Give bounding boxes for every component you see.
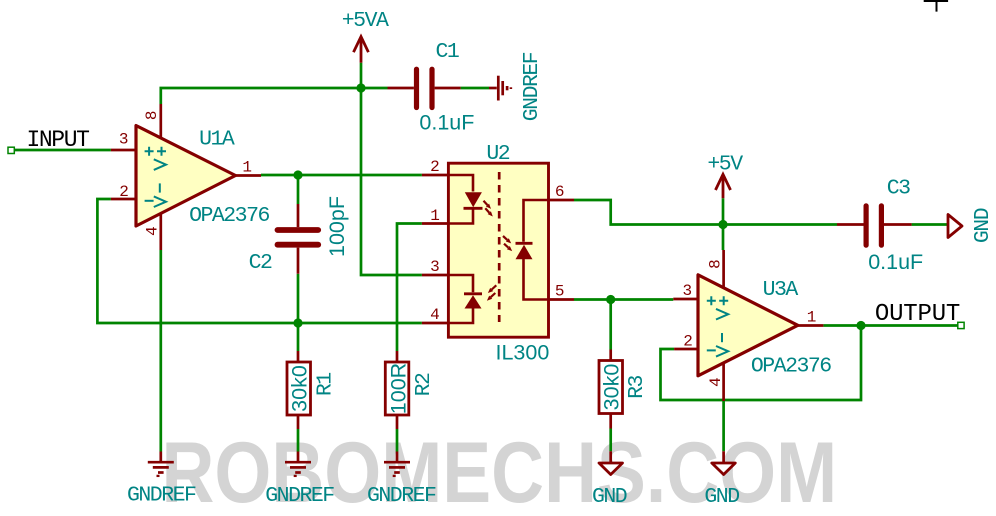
junction at +5VA node	[356, 83, 365, 92]
U2 feedback photodiode triangle	[465, 295, 482, 308]
op-amp U3A body	[698, 275, 798, 376]
U2 pin 4 stub	[422, 322, 449, 325]
label GND rotated at C3	[971, 208, 995, 243]
svg-text:4: 4	[707, 377, 725, 387]
U2 pin number 4	[430, 306, 440, 324]
U2 pin 1 stub	[422, 222, 449, 225]
C1 pin stubs	[388, 87, 461, 90]
resistor R2 body	[385, 362, 409, 415]
wire U3A pin4 down to GND	[722, 401, 725, 451]
U2 isolation dashed line	[498, 172, 501, 322]
U3A value OPA2376	[751, 355, 831, 379]
U1A pin 3 stub	[111, 149, 136, 152]
wire U1A pin2 feedback to net at y=323	[97, 199, 422, 323]
U2 pin number 5	[555, 282, 565, 300]
label +5VA	[342, 9, 389, 33]
svg-text:+5V: +5V	[707, 153, 743, 177]
wire +5V stem lower part	[722, 198, 725, 224]
ground GNDREF under R1	[285, 452, 311, 476]
junction OUTPUT node	[856, 321, 865, 330]
U2 reference label	[486, 142, 509, 166]
svg-text:U3A: U3A	[763, 278, 799, 302]
wire C1 right to GNDREF flag	[461, 87, 489, 90]
U3A pin number 2	[683, 332, 693, 350]
svg-text:3: 3	[430, 258, 440, 276]
svg-text:GND: GND	[592, 485, 627, 509]
capacitor C1 plates	[417, 69, 433, 107]
U2 internal output photodiode wiring pins 6-5	[524, 200, 549, 300]
wire R3 top	[609, 300, 612, 350]
wire U1A pin4 down to GNDREF	[159, 250, 162, 452]
svg-text:+5VA: +5VA	[342, 9, 389, 33]
svg-text:GND: GND	[971, 208, 995, 243]
svg-text:4: 4	[143, 226, 161, 236]
wire +5VA node down to U2 pin3	[361, 88, 422, 275]
svg-text:R1: R1	[314, 373, 338, 396]
wire U3A pin1 to OUTPUT	[823, 324, 957, 327]
U2 output photodiode cathode bar	[516, 242, 533, 245]
node INPUT unconnected square	[8, 147, 14, 153]
U3A pin number 8	[706, 259, 724, 269]
U2 pin number 3	[430, 258, 440, 276]
svg-text:R3: R3	[625, 376, 649, 399]
U2 pin 5 stub	[549, 298, 575, 301]
U1A reference label	[199, 128, 235, 152]
U2 pin number 2	[430, 158, 440, 176]
U2 pin 3 stub	[422, 274, 449, 277]
wire U1A pin1 to U2 pin2	[261, 174, 422, 177]
wire C2 bottom branch	[297, 274, 300, 323]
wire R1 top	[297, 323, 300, 351]
svg-text:GNDREF: GNDREF	[265, 484, 334, 508]
label +5V	[707, 153, 743, 177]
U1A pin number 2	[119, 183, 129, 201]
C2 value 100pF rotated	[325, 196, 349, 257]
svg-text:1: 1	[430, 207, 440, 225]
U3A pin number 1	[807, 308, 817, 326]
svg-text:3: 3	[682, 282, 692, 300]
R1 value 30k0 rotated	[288, 365, 312, 412]
wire U3A pin2 feedback loop	[661, 326, 862, 401]
svg-text:C1: C1	[435, 40, 458, 64]
wire C2 top branch	[297, 175, 300, 204]
C1 value 0.1uF	[419, 111, 474, 135]
junction U1A output node	[293, 170, 302, 179]
U2 internal LED triangle	[465, 192, 482, 207]
svg-text:U2: U2	[486, 142, 509, 166]
node OUTPUT unconnected square	[958, 322, 964, 328]
ground GNDREF sideways at C1	[489, 76, 511, 101]
R2 pin stubs	[396, 351, 399, 429]
label GND under R3	[592, 485, 627, 509]
svg-text:OPA2376: OPA2376	[189, 204, 269, 228]
svg-text:8: 8	[143, 110, 161, 120]
U3A pin names + - V+ V-	[707, 296, 728, 356]
label GNDREF 2	[265, 484, 334, 508]
svg-text:0.1uF: 0.1uF	[419, 111, 474, 135]
ground GND arrow under R3	[599, 451, 623, 474]
ground GND arrow under U3A pin4	[712, 451, 736, 474]
U1A pin 1 stub	[234, 174, 261, 177]
svg-text:0.1uF: 0.1uF	[868, 250, 923, 274]
wire U2 pin6 route to +5V rail	[574, 200, 837, 225]
C3 value 0.1uF	[868, 250, 923, 274]
U3A pin 8 stub	[722, 250, 725, 288]
wire U2 pin5 to U3A pin3	[574, 298, 673, 301]
U2 pin number 6	[555, 183, 565, 201]
svg-text:GNDREF: GNDREF	[520, 52, 544, 121]
U2 pin 6 stub	[549, 199, 575, 202]
capacitor C2 plates	[278, 230, 319, 245]
U1A value OPA2376	[189, 204, 269, 228]
wire INPUT to U1A pin3	[15, 149, 111, 152]
U1A pin number 1	[242, 158, 252, 176]
svg-text:2: 2	[430, 158, 440, 176]
C2 reference label	[249, 251, 272, 275]
U2 internal LED cathode bar	[464, 207, 483, 210]
junction +5V node	[718, 220, 727, 229]
wire +5VA stem lower part	[360, 63, 363, 88]
U2 value IL300	[495, 341, 549, 365]
wire U2 pin1 to R2	[397, 224, 422, 352]
C3 reference label	[887, 176, 910, 200]
svg-text:30k0: 30k0	[600, 364, 624, 411]
wire R1 bottom	[297, 429, 300, 452]
U1A pin number 4	[143, 226, 161, 236]
U1A pin names + - V+ V-	[145, 147, 166, 207]
U3A pin number 3	[682, 282, 692, 300]
svg-text:GND: GND	[704, 485, 739, 509]
svg-text:4: 4	[430, 306, 440, 324]
svg-text:3: 3	[119, 131, 129, 149]
svg-text:100R: 100R	[387, 363, 411, 414]
R3 value 30k0 rotated	[600, 364, 624, 411]
wire U1A pin8 up and top rail to +5VA node	[161, 88, 388, 104]
svg-text:6: 6	[555, 183, 565, 201]
label GNDREF 1	[127, 484, 196, 508]
U3A reference label	[763, 278, 799, 302]
power symbol +5VA	[354, 37, 369, 63]
C3 pin stubs	[837, 223, 912, 226]
U2 internal feedback photodiode wiring pins 3-4	[448, 275, 473, 323]
U2 LED emission arrows	[484, 201, 493, 217]
optocoupler U2 body	[448, 163, 548, 337]
U2 internal LED wiring pins 2-1	[448, 175, 473, 224]
svg-text:U1A: U1A	[199, 128, 235, 152]
svg-text:C3: C3	[887, 176, 910, 200]
U2 pin 2 stub	[422, 174, 449, 177]
U2 feedback photodiode receive arrows	[487, 285, 496, 300]
resistor R1 body	[287, 362, 311, 415]
U1A pin 8 stub	[159, 104, 162, 139]
op-amp U1A body	[136, 126, 236, 227]
svg-text:OPA2376: OPA2376	[751, 355, 831, 379]
label OUTPUT	[875, 301, 960, 328]
label GND under U3A	[704, 485, 739, 509]
C2 pin stubs	[297, 204, 300, 274]
label GNDREF 3	[367, 484, 436, 508]
resistor R3 body	[599, 361, 623, 414]
R1 pin stubs	[297, 351, 300, 429]
svg-text:GNDREF: GNDREF	[367, 484, 436, 508]
svg-text:R2: R2	[412, 373, 436, 396]
R1 reference label rotated	[314, 373, 338, 396]
capacitor C3 plates	[866, 206, 881, 245]
sheet border crosshair mark	[924, 0, 948, 12]
R2 reference label rotated	[412, 373, 436, 396]
U1A pin 2 stub	[111, 198, 136, 201]
svg-text:1: 1	[242, 158, 252, 176]
C1 reference label	[435, 40, 458, 64]
U1A pin 4 stub	[159, 214, 162, 250]
U1A pin number 8	[143, 110, 161, 120]
ground GND flag right of C3	[948, 215, 962, 238]
ground GNDREF under U1A pin4	[148, 452, 174, 476]
R3 reference label rotated	[625, 376, 649, 399]
svg-text:1: 1	[807, 308, 817, 326]
U3A pin 1 stub	[797, 324, 824, 327]
svg-text:INPUT: INPUT	[26, 127, 89, 153]
U2 output photodiode receive arrows	[503, 236, 512, 251]
R2 value 100R rotated	[387, 363, 411, 414]
junction feedback net node	[293, 318, 302, 327]
U3A pin 4 stub	[722, 363, 725, 401]
junction U2 pin5 node	[606, 295, 615, 304]
svg-text:C2: C2	[249, 251, 272, 275]
svg-text:100pF: 100pF	[325, 196, 349, 257]
U2 feedback photodiode cathode bar	[464, 292, 482, 295]
R3 pin stubs	[609, 350, 612, 429]
power symbol +5V	[716, 174, 731, 198]
U2 pin number 1	[430, 207, 440, 225]
svg-text:OUTPUT: OUTPUT	[875, 301, 960, 328]
U2 output photodiode triangle	[516, 245, 533, 259]
ground GNDREF under R2	[384, 452, 410, 476]
svg-text:GNDREF: GNDREF	[127, 484, 196, 508]
svg-text:5: 5	[555, 282, 565, 300]
svg-text:8: 8	[706, 259, 724, 269]
watermark ROBOMECHS.COM	[162, 424, 838, 516]
svg-text:2: 2	[119, 183, 129, 201]
label GNDREF rotated at C1	[520, 52, 544, 121]
U3A pin 2 stub	[674, 348, 698, 351]
svg-text:IL300: IL300	[495, 341, 549, 365]
svg-text:30k0: 30k0	[288, 365, 312, 412]
wire +5V node down to U3A pin8	[722, 225, 725, 251]
U1A pin number 3	[119, 131, 129, 149]
wire C3 right	[912, 223, 948, 226]
wire R2 bottom	[396, 429, 399, 452]
svg-text:2: 2	[683, 332, 693, 350]
label INPUT	[26, 127, 89, 153]
U3A pin 3 stub	[673, 298, 698, 301]
U3A pin number 4	[707, 377, 725, 387]
wire R3 bottom	[609, 429, 612, 452]
